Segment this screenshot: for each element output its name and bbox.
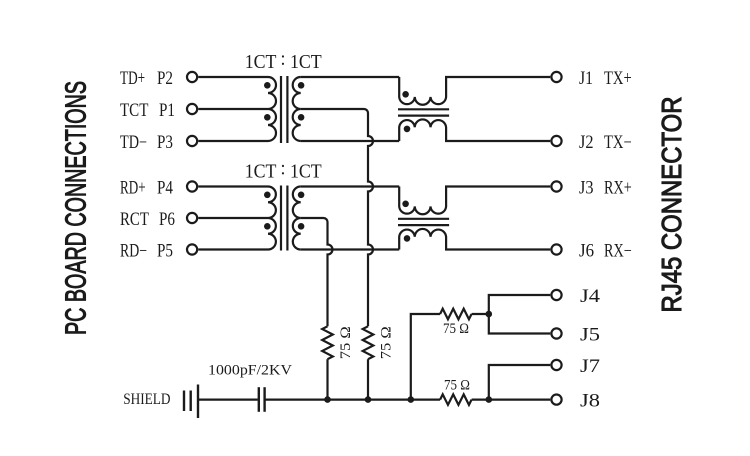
junction dot J7/shield: [486, 396, 493, 403]
wire junction to J5: [489, 314, 551, 334]
wire R1 bottom to shield line: [326, 359, 328, 399]
choke L2 bottom winding and wire to J6: [399, 229, 550, 250]
pin P6 circle: [187, 213, 197, 223]
transformer T1 core: [281, 76, 287, 143]
wire P2 to T1 primary top: [198, 76, 268, 78]
transformer T2 secondary winding: [293, 187, 301, 250]
T1 primary polarity dot bottom: [264, 114, 271, 121]
pin J3 circle: [551, 181, 561, 191]
capacitor C1 short plate 1: [183, 391, 185, 412]
pin P4 circle: [187, 181, 197, 191]
transformer T2 core: [281, 186, 287, 251]
pin J7 circle: [551, 360, 561, 370]
T1 secondary polarity dot top: [298, 82, 305, 89]
capacitor C2 plate 2: [263, 387, 265, 412]
wire T2 secondary bottom to choke L2: [301, 248, 400, 250]
svg-text:75 Ω: 75 Ω: [443, 321, 469, 337]
wire T2 secondary top to choke L2: [301, 185, 400, 187]
shield line wire to resistor R4: [265, 399, 441, 401]
svg-text:RD+: RD+: [120, 179, 146, 199]
wire T1 secondary top to choke L1: [301, 76, 400, 78]
svg-text:75 Ω: 75 Ω: [378, 326, 394, 359]
capacitor C2 plate 1: [258, 387, 260, 412]
svg-text:P3: P3: [157, 133, 173, 153]
svg-text:TD+: TD+: [120, 69, 145, 89]
T1 primary polarity dot top: [264, 82, 271, 89]
wire T1 secondary bottom to choke L1: [301, 140, 400, 142]
resistor R3 75ohm body: [440, 309, 471, 320]
wire P1 to T1 primary center tap: [198, 108, 268, 110]
T2 secondary polarity dot bottom: [298, 223, 305, 230]
resistor R1 75ohm body: [322, 326, 333, 359]
capacitor C1 tall plate: [197, 385, 199, 419]
pin P1 circle: [187, 104, 197, 114]
svg-text:75 Ω: 75 Ω: [444, 378, 470, 394]
transformer T1 secondary winding: [293, 77, 301, 141]
L1 polarity dot bottom: [404, 126, 411, 133]
svg-text:TX−: TX−: [604, 133, 632, 153]
transformer T2 primary winding: [268, 187, 276, 250]
wire junction to J7: [489, 365, 551, 400]
pin J8 circle: [551, 395, 561, 405]
svg-text:J2: J2: [579, 133, 594, 153]
wire T2 secondary center tap down to resistor R1 (with hop): [301, 218, 333, 326]
choke L1 top winding and wire to J1: [399, 77, 550, 105]
junction dot R2/shield: [365, 396, 372, 403]
svg-text:SHIELD: SHIELD: [123, 391, 170, 408]
svg-text:P4: P4: [157, 179, 173, 199]
T2 primary polarity dot top: [264, 192, 271, 199]
wire P3 to T1 primary bottom: [198, 140, 268, 142]
wire P6 to T2 primary center tap: [198, 217, 268, 219]
junction dot J4/J5: [486, 311, 493, 318]
resistor R2 75ohm body: [363, 326, 374, 359]
svg-text:J7: J7: [580, 357, 600, 377]
pin P2 circle: [187, 72, 197, 82]
svg-text:J3: J3: [579, 179, 594, 199]
svg-text:PC BOARD CONNECTIONS: PC BOARD CONNECTIONS: [61, 81, 93, 335]
svg-text:1CT : 1CT: 1CT : 1CT: [245, 158, 322, 183]
svg-text:RX+: RX+: [604, 179, 632, 199]
svg-text:J8: J8: [580, 392, 600, 412]
wire P5 to T2 primary bottom: [198, 248, 268, 250]
choke L1 bottom winding and wire to J2: [399, 119, 550, 141]
pin J2 circle: [551, 136, 561, 146]
svg-text:TD−: TD−: [120, 133, 147, 153]
svg-text:J6: J6: [579, 242, 594, 262]
transformer T1 primary winding: [268, 77, 276, 141]
junction dot R1/shield: [324, 396, 331, 403]
svg-text:P1: P1: [159, 101, 175, 121]
svg-text:RJ45 CONNECTOR: RJ45 CONNECTOR: [656, 97, 687, 313]
L1 polarity dot top: [402, 91, 409, 98]
wire junction to J4: [489, 295, 551, 314]
resistor R4 75ohm body: [440, 394, 471, 405]
T2 primary polarity dot bottom: [264, 223, 271, 230]
svg-text:J5: J5: [580, 326, 600, 346]
svg-text:P6: P6: [159, 210, 175, 230]
pin J4 circle: [551, 290, 561, 300]
pin J5 circle: [551, 328, 561, 338]
pin J6 circle: [551, 244, 561, 254]
shield line wire to J8: [472, 399, 551, 401]
svg-text:RCT: RCT: [120, 210, 149, 230]
svg-text:RD−: RD−: [120, 242, 147, 262]
L2 polarity dot bottom: [404, 235, 411, 242]
wire R3 to J4/J5 junction: [472, 313, 489, 315]
T2 secondary polarity dot top: [298, 192, 305, 199]
pin J1 circle: [551, 72, 561, 82]
svg-text:RX−: RX−: [604, 242, 632, 262]
svg-text:TCT: TCT: [120, 101, 148, 121]
pin P5 circle: [187, 244, 197, 254]
capacitor C1 short plate 2: [189, 391, 191, 412]
svg-text:J1: J1: [579, 69, 593, 89]
choke L1 core: [398, 109, 449, 115]
T1 secondary polarity dot bottom: [298, 114, 305, 121]
svg-text:1000pF/2KV: 1000pF/2KV: [208, 363, 292, 379]
pin P3 circle: [187, 136, 197, 146]
wire T1 secondary center tap down to resistor R2 (with hops): [301, 109, 373, 326]
wire R2 bottom to shield line: [367, 359, 369, 399]
choke L2 core: [398, 219, 449, 225]
svg-text:TX+: TX+: [604, 69, 632, 89]
wire P4 to T2 primary top: [198, 185, 268, 187]
svg-text:P2: P2: [157, 69, 173, 89]
junction dot R3-branch/shield: [408, 396, 415, 403]
wire C1 to C2: [199, 399, 258, 401]
svg-text:J4: J4: [580, 287, 600, 307]
svg-text:P5: P5: [157, 242, 173, 262]
choke L2 top winding and wire to J3: [399, 187, 550, 215]
svg-text:1CT : 1CT: 1CT : 1CT: [245, 48, 322, 73]
svg-text:75 Ω: 75 Ω: [338, 326, 354, 359]
L2 polarity dot top: [402, 201, 409, 208]
branch wire up to resistor R3: [411, 314, 440, 400]
